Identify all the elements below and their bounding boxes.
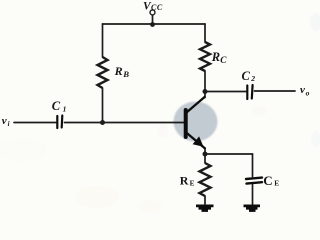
resistor RE <box>200 163 211 196</box>
svg-text:E: E <box>190 179 195 187</box>
svg-text:v: v <box>300 84 305 96</box>
svg-text:1: 1 <box>63 104 67 113</box>
wire RB bottom <box>102 88 104 123</box>
capacitor CE <box>246 178 262 184</box>
svg-text:i: i <box>8 120 10 128</box>
node junction collector <box>203 89 208 94</box>
wire Vcc stem <box>152 15 154 25</box>
label RE <box>180 173 195 187</box>
wire input to C1 <box>14 122 56 124</box>
wire node to CE <box>205 153 253 155</box>
transistor Q1 collector lead <box>187 97 205 113</box>
wire C2 left <box>205 91 246 93</box>
label Vcc <box>143 0 163 12</box>
svg-text:R: R <box>211 50 220 64</box>
node junction top rail <box>150 22 155 27</box>
wire RC top <box>204 24 206 42</box>
svg-text:C: C <box>220 56 227 66</box>
wire top rail <box>103 23 206 25</box>
wire base <box>65 122 185 124</box>
label vo <box>300 84 310 98</box>
transistor Q1 emitter arrow <box>193 136 204 146</box>
wire RB top <box>102 24 104 57</box>
wire collector stub <box>204 92 206 98</box>
label C2 <box>242 69 256 83</box>
transistor body highlight Q1 <box>174 102 218 142</box>
label C1 <box>52 99 67 113</box>
svg-text:2: 2 <box>250 74 255 83</box>
wire CE down to plate <box>252 154 254 177</box>
wire emitter to node <box>204 148 206 163</box>
capacitor C2 <box>247 85 252 99</box>
node junction base <box>100 120 105 125</box>
wire RE to ground <box>204 196 206 204</box>
resistor RC <box>200 42 210 71</box>
svg-text:v: v <box>2 115 7 127</box>
svg-text:E: E <box>274 180 279 188</box>
label RB <box>114 64 130 79</box>
capacitor C1 <box>57 116 62 129</box>
svg-text:R: R <box>114 64 123 78</box>
label vi <box>2 115 10 128</box>
svg-text:C: C <box>52 99 61 113</box>
svg-text:B: B <box>122 69 129 79</box>
label CE <box>263 173 279 188</box>
terminal Vcc <box>150 10 155 15</box>
transistor Q1 base bar <box>184 110 188 137</box>
svg-text:C: C <box>263 173 272 188</box>
svg-text:o: o <box>306 88 310 97</box>
svg-text:C: C <box>242 69 251 83</box>
label RC <box>211 50 228 66</box>
transistor Q1 emitter lead <box>187 133 205 148</box>
node junction emitter <box>203 152 208 157</box>
ground below RE <box>196 206 214 211</box>
wire RC bottom <box>204 71 206 92</box>
svg-text:R: R <box>180 173 189 187</box>
resistor RB <box>98 57 108 88</box>
wire C2 right to vo <box>255 90 296 92</box>
svg-text:CC: CC <box>151 3 163 12</box>
ground below CE <box>244 206 261 211</box>
wire CE plate to ground <box>252 185 254 205</box>
